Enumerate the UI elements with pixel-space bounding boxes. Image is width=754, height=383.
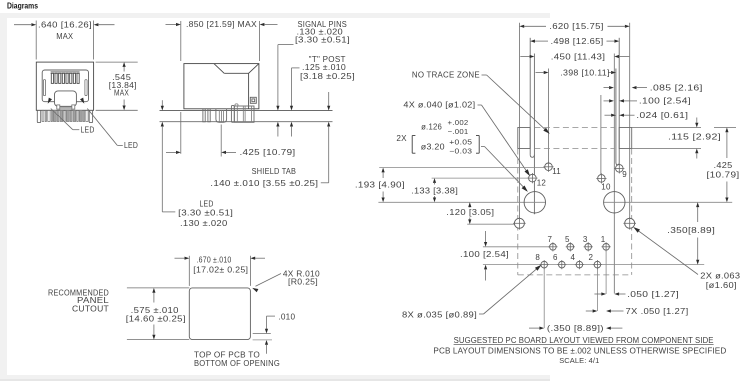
svg-text:MAX: MAX	[114, 89, 129, 98]
svg-text:.193 [4.90]: .193 [4.90]	[355, 180, 405, 189]
svg-text:.398 [10.11]: .398 [10.11]	[560, 68, 610, 77]
svg-text:[3.30 ±0.51]: [3.30 ±0.51]	[295, 35, 350, 44]
svg-text:−0.03: −0.03	[449, 146, 472, 155]
svg-text:ø3.20: ø3.20	[421, 142, 445, 151]
svg-text:SUGGESTED PC BOARD LAYOUT VIEW: SUGGESTED PC BOARD LAYOUT VIEWED FROM CO…	[454, 336, 714, 345]
svg-text:LED: LED	[81, 125, 95, 134]
svg-text:7X .050 [1.27]: 7X .050 [1.27]	[626, 307, 689, 316]
svg-text:LED: LED	[200, 199, 214, 208]
svg-text:.425: .425	[714, 161, 733, 170]
svg-text:.024 [0.61]: .024 [0.61]	[636, 111, 688, 120]
svg-text:.350[8.89]: .350[8.89]	[667, 226, 715, 235]
svg-text:.130 ±.020: .130 ±.020	[180, 219, 228, 228]
svg-text:.450 [11.43]: .450 [11.43]	[551, 52, 606, 61]
svg-text:PCB LAYOUT DIMENSIONS TO BE ±.: PCB LAYOUT DIMENSIONS TO BE ±.002 UNLESS…	[433, 346, 726, 355]
svg-text:.050 [1.27]: .050 [1.27]	[627, 290, 679, 299]
svg-text:12: 12	[537, 179, 547, 188]
svg-text:8X ø.035 [ø0.89]: 8X ø.035 [ø0.89]	[402, 310, 477, 319]
svg-text:.425 [10.79]: .425 [10.79]	[240, 148, 296, 157]
svg-text:+0.05: +0.05	[449, 138, 472, 147]
svg-text:BOTTOM OF OPENING: BOTTOM OF OPENING	[194, 359, 280, 368]
svg-text:MAX: MAX	[56, 32, 73, 41]
svg-text:.010: .010	[278, 312, 295, 321]
svg-text:[17.02± 0.25]: [17.02± 0.25]	[193, 265, 248, 274]
svg-text:1: 1	[601, 235, 606, 244]
svg-text:+.002: +.002	[448, 118, 469, 127]
svg-text:5: 5	[565, 235, 570, 244]
svg-text:4: 4	[571, 253, 576, 262]
svg-text:2X: 2X	[396, 134, 407, 143]
svg-text:SHIELD TAB: SHIELD TAB	[252, 167, 297, 176]
svg-text:.100 [2.54]: .100 [2.54]	[639, 97, 691, 106]
svg-text:.120 [3.05]: .120 [3.05]	[446, 208, 494, 217]
svg-text:.498 [12.65]: .498 [12.65]	[551, 37, 604, 46]
svg-text:ø.126: ø.126	[421, 122, 442, 131]
svg-text:.085 [2.16]: .085 [2.16]	[650, 83, 703, 92]
svg-text:4X ø.040 [ø1.02]: 4X ø.040 [ø1.02]	[403, 101, 475, 110]
svg-text:.670 ±.010: .670 ±.010	[197, 256, 232, 265]
svg-text:−.001: −.001	[448, 127, 469, 136]
svg-text:8: 8	[535, 253, 540, 262]
svg-text:[14.60 ±0.25]: [14.60 ±0.25]	[126, 315, 186, 324]
svg-text:2X ø.063: 2X ø.063	[700, 271, 740, 280]
svg-text:3: 3	[583, 235, 588, 244]
svg-text:SCALE: 4/1: SCALE: 4/1	[559, 356, 599, 365]
svg-text:.850 [21.59] MAX: .850 [21.59] MAX	[186, 20, 257, 29]
svg-text:.575 ±.010: .575 ±.010	[131, 306, 179, 315]
svg-text:NO TRACE ZONE: NO TRACE ZONE	[412, 71, 480, 80]
svg-text:11: 11	[552, 167, 561, 176]
svg-text:[3.30 ±0.51]: [3.30 ±0.51]	[178, 209, 233, 218]
svg-text:.133 [3.38]: .133 [3.38]	[411, 186, 458, 195]
svg-text:(.350 [8.89]): (.350 [8.89])	[547, 324, 604, 333]
svg-text:9: 9	[622, 170, 627, 179]
svg-text:10: 10	[601, 183, 611, 192]
svg-text:.620 [15.75]: .620 [15.75]	[549, 22, 604, 31]
svg-text:.115 [2.92]: .115 [2.92]	[668, 132, 721, 141]
svg-text:.640 [16.26]: .640 [16.26]	[38, 20, 92, 29]
svg-text:2: 2	[589, 253, 594, 262]
svg-text:CUTOUT: CUTOUT	[72, 304, 109, 313]
svg-text:.140 ±.010 [3.55 ±0.25]: .140 ±.010 [3.55 ±0.25]	[210, 179, 318, 188]
svg-text:7: 7	[548, 235, 553, 244]
svg-text:[3.18 ±0.25]: [3.18 ±0.25]	[300, 72, 355, 81]
svg-text:Diagrams: Diagrams	[7, 2, 38, 11]
svg-text:[ø1.60]: [ø1.60]	[706, 281, 737, 290]
svg-text:6: 6	[553, 253, 558, 262]
svg-text:.100 [2.54]: .100 [2.54]	[460, 250, 509, 259]
svg-text:[R0.25]: [R0.25]	[288, 277, 318, 286]
svg-text:[10.79]: [10.79]	[707, 171, 740, 180]
svg-text:.125 ±.010: .125 ±.010	[302, 63, 346, 72]
svg-text:LED: LED	[124, 141, 138, 150]
